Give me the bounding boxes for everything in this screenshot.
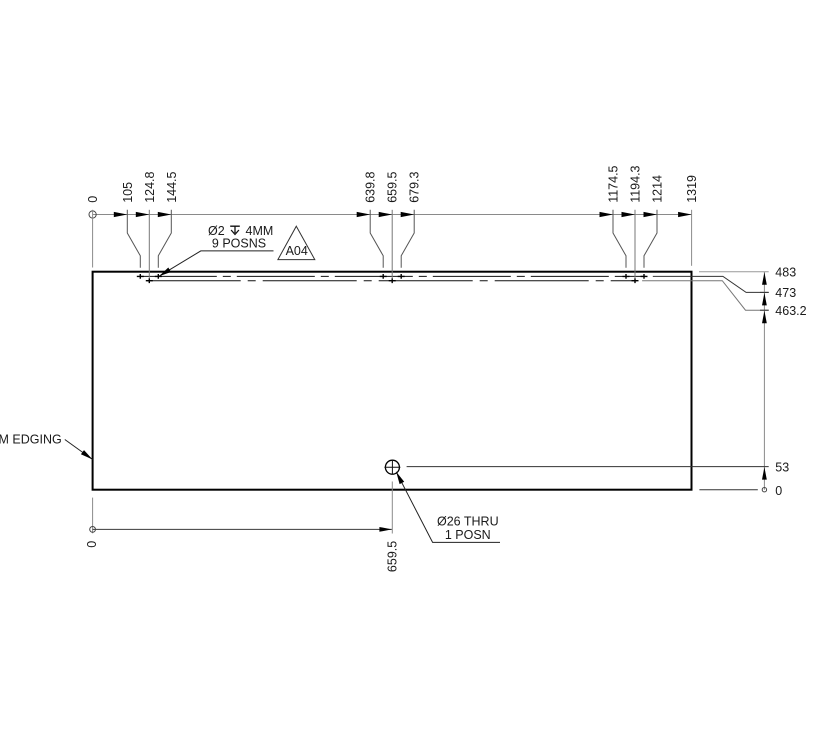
right tick 473 (760, 291, 769, 293)
O26 leader arrowhead (396, 472, 404, 484)
hole cross 639.8 (380, 274, 387, 279)
svg-text:473: 473 (775, 286, 796, 300)
hole cross 105 (137, 274, 144, 279)
hole row centerline 463.2 (147, 280, 637, 282)
extension 105 (127, 210, 140, 268)
line 0 bottom right (699, 489, 757, 491)
right tick 463.2 (760, 309, 769, 311)
depth symbol (230, 226, 240, 234)
hole row centerline 473 right extension (653, 276, 769, 292)
hole cross 1194.3 (632, 278, 639, 283)
right arrow 483 (762, 272, 767, 285)
top dim arrow 1194.3 (622, 212, 636, 217)
svg-text:1174.5: 1174.5 (607, 165, 621, 202)
svg-text:144.5: 144.5 (165, 171, 179, 202)
line 53 from hole to dim (407, 466, 769, 468)
right ordinate dimension line (763, 272, 765, 490)
svg-text:1194.3: 1194.3 (629, 165, 643, 202)
bottom origin circle (90, 527, 96, 533)
hole cross 679.3 (398, 274, 405, 279)
extension 659.5 (391, 210, 393, 278)
top origin extension to panel (92, 210, 94, 268)
top dim arrow 659.5 (379, 212, 393, 217)
right arrow 463.2 (762, 311, 767, 324)
bottom ext left (92, 498, 94, 534)
callout hole note leader arrowhead (159, 268, 171, 277)
hole cross 1174.5 (623, 274, 630, 279)
svg-text:9 POSNS: 9 POSNS (212, 237, 266, 251)
extension 1174.5 (613, 210, 626, 268)
right origin circle (762, 488, 766, 492)
svg-text:A04: A04 (286, 244, 308, 258)
hole cross 1214 (641, 274, 648, 279)
extension 1319 (691, 210, 693, 266)
svg-text:0: 0 (86, 196, 100, 203)
extension 144.5 (158, 210, 171, 268)
svg-text:1319: 1319 (685, 175, 699, 203)
top dim arrow 1174.5 (600, 212, 614, 217)
top dim arrow 1214 (644, 212, 658, 217)
right arrow 53 (762, 467, 767, 480)
panel outline (93, 272, 692, 490)
extension 679.3 (401, 210, 414, 268)
O26 leader (396, 472, 500, 543)
svg-text:679.3: 679.3 (408, 171, 422, 202)
hole cross 124.8 (146, 278, 153, 283)
svg-text:0: 0 (85, 541, 99, 548)
bottom dim arrow (379, 527, 392, 532)
top dim arrow 105 (114, 212, 128, 217)
svg-text:1214: 1214 (651, 175, 665, 203)
svg-text:Ø26 THRU: Ø26 THRU (437, 515, 499, 529)
svg-text:463.2: 463.2 (775, 304, 806, 318)
extension 1194.3 (634, 210, 636, 278)
bottom dim line (93, 528, 392, 530)
svg-text:124.8: 124.8 (143, 171, 157, 202)
hole O26 circle (385, 460, 399, 474)
top dim arrow 124.8 (136, 212, 150, 217)
top dim arrow 144.5 (158, 212, 172, 217)
hole O26 crosshair (384, 460, 400, 475)
M EDGING leader (65, 440, 93, 460)
bottom ext right (through hole) (391, 482, 393, 534)
M EDGING arrowhead (81, 450, 93, 459)
svg-text:483: 483 (775, 266, 796, 280)
svg-text:639.8: 639.8 (364, 171, 378, 202)
svg-text:53: 53 (775, 460, 789, 474)
top ordinate origin circle (89, 211, 96, 218)
hole cross 144.5 (155, 274, 162, 279)
svg-text:1 POSN: 1 POSN (445, 528, 491, 542)
svg-text:0: 0 (775, 484, 782, 498)
right arrow 473 (762, 293, 767, 306)
top ordinate dimension line (93, 214, 692, 216)
callout hole note leader (159, 251, 274, 276)
svg-text:659.5: 659.5 (385, 541, 399, 572)
top dim arrow 639.8 (357, 212, 371, 217)
triangle flag A04 (278, 226, 315, 259)
extension 1214 (644, 210, 657, 268)
top dim arrow 679.3 (401, 212, 415, 217)
svg-text:105: 105 (121, 182, 135, 203)
top dim arrow 1319 (678, 212, 692, 217)
extension 639.8 (370, 210, 383, 268)
hole row centerline 473 (139, 275, 646, 277)
right ext 483 (699, 271, 769, 273)
svg-text:659.5: 659.5 (386, 171, 400, 202)
hole cross 659.5 (389, 278, 396, 283)
hole row centerline 463.2 right extension (642, 281, 769, 311)
svg-text:M EDGING: M EDGING (0, 433, 62, 447)
extension 124.8 (148, 210, 150, 278)
